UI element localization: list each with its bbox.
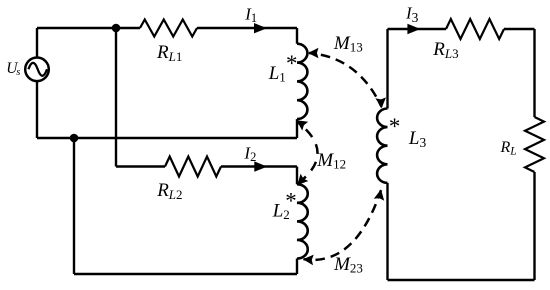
svg-text:L3: L3 bbox=[408, 128, 427, 150]
inductor L2 bbox=[297, 184, 308, 258]
svg-text:RL: RL bbox=[500, 139, 517, 158]
wire vertical from node B bbox=[73, 138, 75, 274]
source Us bbox=[25, 58, 49, 82]
mutual inductance arc M12 bbox=[297, 122, 318, 185]
arrowhead M23 at L2 bbox=[303, 254, 314, 265]
resistor RL1 bbox=[140, 20, 197, 37]
wire right circuit right upper bbox=[533, 29, 535, 117]
svg-text:*: * bbox=[285, 51, 297, 76]
wire loop1 right bottom bbox=[296, 119, 298, 138]
resistor RL2 bbox=[165, 157, 221, 177]
inductor L3 bbox=[377, 109, 387, 183]
wire source top bbox=[36, 28, 38, 58]
wire right circuit bottom bbox=[388, 279, 535, 281]
svg-text:Us: Us bbox=[6, 60, 20, 78]
svg-text:M13: M13 bbox=[333, 33, 363, 55]
svg-text:M23: M23 bbox=[333, 254, 363, 276]
current arrow I2 bbox=[254, 161, 267, 171]
wire source bottom bbox=[36, 81, 38, 138]
wire right circuit top right bbox=[504, 28, 535, 30]
wire right circuit right lower bbox=[533, 172, 535, 280]
wire top rail left bbox=[37, 27, 140, 29]
resistor RL bbox=[525, 117, 544, 172]
current arrow I3 bbox=[407, 24, 420, 34]
svg-text:RL2: RL2 bbox=[156, 180, 182, 202]
wire bottom rail bbox=[37, 137, 297, 139]
svg-text:M12: M12 bbox=[316, 150, 346, 172]
svg-text:L1: L1 bbox=[268, 63, 286, 85]
wire loop1 right top bbox=[296, 28, 298, 44]
arrowhead M13 at L3 bbox=[375, 97, 386, 108]
current arrow I1 bbox=[254, 23, 267, 33]
wire right circuit left lower bbox=[386, 183, 388, 280]
wire right circuit left upper bbox=[386, 29, 388, 109]
svg-text:*: * bbox=[284, 189, 296, 214]
arrowhead M23 at L3 bbox=[374, 188, 386, 200]
mutual inductance arc M23 bbox=[304, 190, 382, 260]
node B junction dot bbox=[70, 134, 79, 143]
source sine symbol bbox=[28, 63, 47, 76]
svg-text:RL1: RL1 bbox=[156, 42, 182, 64]
svg-text:*: * bbox=[388, 114, 400, 139]
svg-text:I3: I3 bbox=[405, 4, 419, 26]
wire vertical from node A bbox=[115, 28, 117, 167]
wire loop2 top right bbox=[221, 165, 297, 167]
mutual inductance arc M13 bbox=[309, 53, 382, 107]
wire top rail right bbox=[197, 27, 297, 29]
inductor L1 bbox=[297, 44, 307, 119]
node A junction dot bbox=[112, 24, 121, 33]
arrowhead M12 at L1 bbox=[294, 116, 309, 131]
svg-text:I2: I2 bbox=[243, 143, 256, 164]
wire loop2 bottom bbox=[74, 273, 297, 275]
svg-text:I1: I1 bbox=[244, 5, 257, 26]
arrowhead M12 at L2 bbox=[293, 174, 308, 189]
arrowhead M13 at L1 bbox=[308, 48, 319, 59]
wire loop2 top bbox=[116, 165, 165, 167]
wire loop2 right bottom bbox=[296, 259, 298, 275]
wire loop2 right top bbox=[296, 167, 298, 185]
resistor RL3 bbox=[446, 19, 504, 39]
svg-text:RL3: RL3 bbox=[432, 39, 458, 61]
wire right circuit top left bbox=[388, 28, 447, 30]
